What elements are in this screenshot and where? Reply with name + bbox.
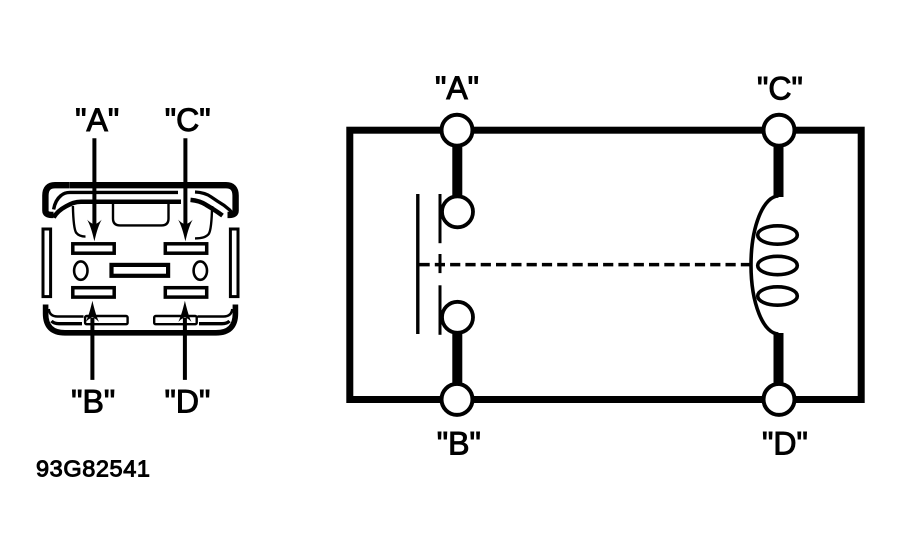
center key slot: [112, 265, 169, 276]
switch contact circle upper: [442, 196, 473, 227]
switch armature cross dash: [439, 254, 442, 273]
terminal A: [442, 115, 473, 146]
svg-text:"A": "A": [75, 102, 119, 138]
connector top-left corner outer band: [45, 185, 69, 215]
connector second ridge line right: [195, 192, 233, 214]
connector second ridge line left: [54, 192, 178, 209]
arrow A shaft: [92, 138, 96, 226]
connector right hook: [195, 206, 212, 238]
svg-text:"C": "C": [757, 71, 803, 107]
connector third ridge line right: [191, 200, 223, 216]
connector top bar: [70, 182, 195, 188]
pin A slot: [73, 244, 114, 253]
svg-text:"B": "B": [437, 425, 481, 461]
connector bottom band with corners: [46, 305, 236, 333]
relay case rectangle: [350, 130, 861, 399]
bottom-right inner arc: [198, 309, 233, 317]
arrow B head: [86, 301, 99, 322]
svg-text:93G82541: 93G82541: [36, 456, 151, 482]
bottom-right inner line: [199, 321, 230, 324]
pin B slot: [73, 288, 114, 297]
arrow A head: [87, 220, 102, 242]
lead C to coil: [774, 146, 784, 197]
coil left arc: [751, 196, 779, 334]
connector right side bar: [230, 229, 238, 297]
connector left hook: [73, 206, 86, 237]
arrow D shaft: [183, 318, 187, 380]
connector top-right corner outer band: [194, 185, 236, 215]
arrow C shaft: [183, 138, 187, 226]
switch blade: [416, 194, 419, 334]
connector left side bar: [43, 229, 51, 297]
svg-text:"A": "A": [435, 70, 479, 106]
bottom-right slot: [154, 316, 197, 324]
lead B to switch contact: [452, 332, 462, 384]
left oval: [74, 261, 87, 279]
svg-text:"B": "B": [71, 384, 115, 420]
arrow D head: [178, 301, 191, 322]
bottom-left slot: [85, 316, 128, 324]
terminal B: [442, 384, 473, 415]
svg-text:"D": "D": [762, 425, 808, 461]
bottom-left inner arc: [49, 309, 84, 317]
coil loop 3: [758, 287, 798, 305]
coil loop 2: [758, 256, 798, 274]
svg-text:"C": "C": [165, 102, 211, 138]
pin D slot: [165, 288, 206, 297]
mechanical linkage dashed line: [420, 263, 752, 267]
bottom-left inner line: [52, 321, 83, 324]
switch armature line lower: [439, 285, 442, 335]
terminal D: [764, 384, 795, 415]
connector third ridge line left: [54, 202, 181, 218]
arrow B shaft: [90, 318, 94, 380]
switch contact circle lower: [442, 302, 473, 333]
terminal C: [764, 115, 795, 146]
pin C slot: [165, 244, 206, 253]
lead A to switch contact: [452, 146, 462, 198]
connector center tab: [113, 204, 169, 226]
switch armature line upper: [439, 194, 442, 243]
svg-text:"D": "D": [164, 384, 210, 420]
arrow C head: [178, 220, 193, 242]
lead D from coil: [774, 333, 784, 384]
coil loop 1: [758, 226, 798, 244]
right oval: [194, 261, 207, 279]
